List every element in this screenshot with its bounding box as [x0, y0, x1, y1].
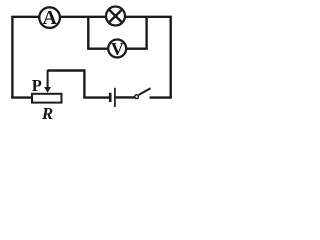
- wire bottom-left: left wire to rheostat box: [11, 96, 32, 98]
- rheostat R box: [32, 94, 62, 103]
- slider arrow (wiper): [44, 70, 51, 93]
- battery negative plate (short): [109, 93, 112, 102]
- wire battery to switch: [116, 96, 135, 98]
- lamp (circle with X): [106, 7, 125, 26]
- wire slider to battery: up-right-down L route: [48, 71, 109, 98]
- voltmeter V circle: [108, 39, 126, 59]
- ammeter A circle: [39, 7, 60, 29]
- svg-text:V: V: [111, 39, 124, 59]
- svg-text:R: R: [41, 104, 53, 123]
- svg-text:P: P: [32, 76, 42, 95]
- wire voltmeter branch left: junction drop to voltmeter: [88, 17, 108, 49]
- svg-text:A: A: [42, 7, 57, 29]
- switch arm (open blade): [139, 88, 151, 95]
- wire ammeter to lamp: [60, 16, 106, 18]
- battery positive plate (long): [114, 88, 116, 107]
- switch pivot circle: [135, 95, 139, 99]
- wire voltmeter branch right: voltmeter up to top wire: [127, 17, 147, 49]
- wire lamp to top-right corner and down right side: [125, 17, 171, 98]
- wire top-left: left corner to ammeter: [12, 17, 39, 98]
